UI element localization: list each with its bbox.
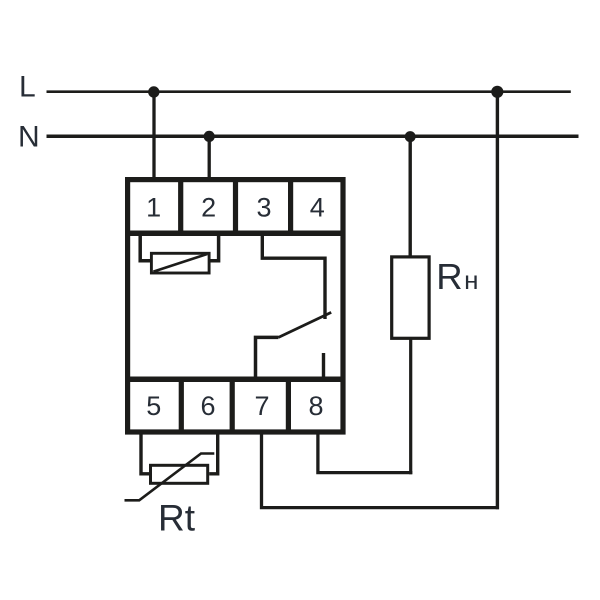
junction dot on L right drop bbox=[491, 86, 503, 98]
junction dot on N above resistor RH bbox=[405, 131, 416, 142]
wire N to terminal 2 bbox=[208, 136, 211, 179]
wire N bus bbox=[47, 134, 579, 138]
switch fixed contact stub to terminal 8 bbox=[322, 353, 325, 379]
svg-text:7: 7 bbox=[254, 391, 269, 421]
divider terminals 2|3 bbox=[233, 180, 238, 233]
divider terminals 3|4 bbox=[288, 180, 293, 233]
wire L right drop to bottom bbox=[496, 92, 499, 509]
svg-text:Rt: Rt bbox=[158, 498, 196, 539]
wire terminal 8 to RH bottom bbox=[318, 434, 412, 473]
svg-text:1: 1 bbox=[146, 193, 161, 223]
wire terminal 7 down to L drop bbox=[262, 434, 500, 508]
divider terminals 1|2 bbox=[178, 180, 183, 233]
terminal strip top row bottom line bbox=[125, 230, 346, 236]
terminal strip bottom row top line bbox=[125, 376, 346, 382]
svg-text:N: N bbox=[18, 121, 40, 154]
wire resistor RH to bottom bbox=[409, 338, 412, 474]
junction dot on L above terminal 1 bbox=[148, 86, 159, 97]
wire terminal 1 to coil bbox=[140, 236, 150, 261]
svg-text:5: 5 bbox=[146, 391, 161, 421]
resistor RH body bbox=[392, 257, 429, 338]
svg-text:8: 8 bbox=[308, 391, 323, 421]
svg-text:4: 4 bbox=[310, 193, 325, 223]
wire terminal 3 to switch contact bbox=[262, 236, 325, 319]
thermistor Rt bent line bbox=[125, 454, 215, 501]
wire terminal 5 to thermistor bbox=[141, 434, 149, 474]
coil K1 diagonal bbox=[153, 254, 207, 272]
wire switch pivot to terminal 7 bbox=[256, 337, 279, 379]
wire N to resistor RH bbox=[409, 137, 412, 258]
divider terminals 7|8 bbox=[286, 379, 291, 432]
wire L bus bbox=[47, 90, 571, 93]
wire coil to terminal 2 bbox=[211, 236, 219, 261]
relay module outline bbox=[128, 180, 343, 432]
svg-text:3: 3 bbox=[256, 193, 271, 223]
svg-text:2: 2 bbox=[201, 193, 216, 223]
thermistor Rt body bbox=[151, 465, 208, 483]
svg-text:6: 6 bbox=[200, 391, 215, 421]
coil K1 body bbox=[151, 253, 209, 273]
wire terminal 6 to thermistor bbox=[209, 434, 218, 474]
svg-text:L: L bbox=[19, 71, 36, 104]
wire L to terminal 1 bbox=[152, 92, 155, 179]
divider terminals 5|6 bbox=[179, 379, 184, 432]
switch arm bbox=[279, 312, 332, 337]
divider terminals 6|7 bbox=[230, 379, 235, 432]
junction dot on N above terminal 2 bbox=[204, 131, 215, 142]
